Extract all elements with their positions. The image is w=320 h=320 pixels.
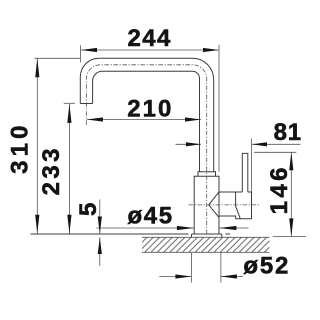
spout inner contour xyxy=(93,71,200,172)
dimension o45 right segment xyxy=(219,227,248,229)
svg-text:146: 146 xyxy=(266,164,293,214)
cartridge body xyxy=(219,192,252,219)
dim 233 bottom arrow xyxy=(67,215,71,234)
dimension o52 right segment xyxy=(221,276,243,278)
dim o52 right extension xyxy=(220,253,222,283)
body horizontal centerline xyxy=(189,204,260,206)
dim o52 right arrow xyxy=(221,274,237,278)
dim o52 left arrow xyxy=(175,274,191,278)
dimension 233 line xyxy=(68,104,70,234)
dimension 5 upper line xyxy=(99,199,101,233)
dimension 244 line xyxy=(81,49,219,51)
dim 310 bottom arrow xyxy=(35,215,39,234)
dimension 81 right segment xyxy=(252,143,301,145)
lever rod xyxy=(242,153,248,193)
svg-text:ø52: ø52 xyxy=(243,252,290,279)
dim 244 right extension xyxy=(218,45,220,172)
dim 233 top extension xyxy=(64,102,75,104)
spout centerline dash-dot xyxy=(86,65,206,236)
body column xyxy=(194,176,219,234)
dimension 5 lower line xyxy=(99,237,101,266)
dim 146 top arrow xyxy=(289,152,293,170)
body chevron joint xyxy=(209,192,219,218)
dim 81 left arrow xyxy=(186,142,201,146)
svg-text:81: 81 xyxy=(274,119,302,146)
dimension o52 left segment xyxy=(159,276,191,278)
seating line A xyxy=(31,233,231,235)
svg-text:244: 244 xyxy=(127,25,171,52)
dim o45 right arrow xyxy=(219,226,236,230)
dimension 210 line xyxy=(87,119,201,121)
dim 5 lower arrow xyxy=(98,237,102,254)
dim 5 upper arrow xyxy=(98,217,102,234)
dim 244 left extension xyxy=(79,45,81,62)
dimension 146 line xyxy=(290,152,292,236)
dim 146 top extension xyxy=(254,151,296,153)
dim 210 left arrow xyxy=(87,117,103,121)
dim o45 left arrow xyxy=(177,226,194,230)
dim 233 top arrow xyxy=(67,104,71,123)
spout outlet end xyxy=(80,103,92,105)
svg-text:210: 210 xyxy=(127,96,173,123)
dimension 310 line xyxy=(36,58,38,234)
svg-text:310: 310 xyxy=(7,121,34,174)
svg-text:233: 233 xyxy=(38,145,65,195)
dim 146 bottom reference xyxy=(273,236,306,238)
base plate xyxy=(192,234,222,237)
svg-text:ø45: ø45 xyxy=(128,203,174,230)
countertop hatch xyxy=(142,237,270,252)
spout outer contour xyxy=(80,58,213,172)
dimension o45 left segment xyxy=(96,227,194,229)
dim 146 bottom arrow xyxy=(289,218,293,236)
dimension 81 left segment xyxy=(176,143,201,145)
dim 81 right extension xyxy=(251,139,253,193)
dim o52 left extension xyxy=(190,253,192,283)
dim 310 top extension xyxy=(35,57,81,59)
dim 81 right arrow xyxy=(252,142,267,146)
dim 310 top arrow xyxy=(35,58,39,77)
svg-text:5: 5 xyxy=(75,200,102,216)
dim 244 right arrow xyxy=(203,48,219,52)
dim 244 left arrow xyxy=(81,48,97,52)
dim 210 right arrow xyxy=(185,117,201,121)
collar xyxy=(198,172,216,176)
